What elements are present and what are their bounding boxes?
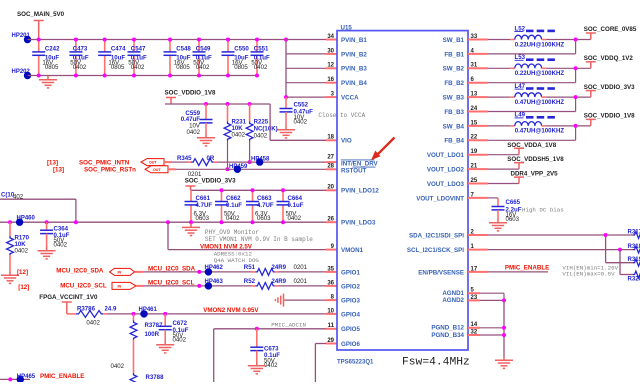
ground C665 <box>489 219 507 231</box>
wire AGND1 <box>468 292 480 294</box>
svg-text:0603: 0603 <box>506 216 520 223</box>
pin 27 INT/EN_DRV <box>327 155 378 168</box>
svg-text:C552: C552 <box>294 102 309 109</box>
capacitor C661 <box>185 190 213 224</box>
svg-text:0402: 0402 <box>110 363 124 370</box>
svg-text:SOC_CORE_0V85: SOC_CORE_0V85 <box>584 26 637 33</box>
svg-text:PMIC_ADCIN: PMIC_ADCIN <box>271 322 306 329</box>
pin 34 PVIN_B1 <box>327 34 367 44</box>
svg-text:SW_B2: SW_B2 <box>443 66 465 73</box>
svg-text:Q4A WATCH DOG: Q4A WATCH DOG <box>214 257 260 264</box>
inductor L49 <box>515 112 565 135</box>
pin 21 VOUT_LDO2 <box>427 164 478 174</box>
svg-text:DDR4_VPP_2V5: DDR4_VPP_2V5 <box>511 171 559 178</box>
svg-text:MCU_I2C0_SDA: MCU_I2C0_SDA <box>148 265 196 272</box>
svg-text:R52: R52 <box>244 278 256 285</box>
wire VMON1 from rail to pin 9 <box>166 220 170 224</box>
junction L53 output <box>574 66 578 70</box>
port OUT SOC_PMIC_INTN <box>141 159 164 166</box>
pin 19 VOUT_LDO1 <box>427 149 478 159</box>
junction left rail corner <box>74 220 78 224</box>
pin 22 FB_B4 <box>444 135 477 145</box>
svg-text:SW_B4: SW_B4 <box>443 123 465 130</box>
pin 16 PVIN_B4 <box>327 77 367 87</box>
svg-text:0402: 0402 <box>232 131 246 138</box>
capacitor C473 symbol <box>69 52 82 55</box>
svg-text:[13]: [13] <box>47 159 58 166</box>
wire MCU_I2C0_SDA to pin 35 <box>135 271 144 273</box>
svg-text:36: 36 <box>327 280 334 286</box>
svg-text:0402: 0402 <box>294 119 308 126</box>
svg-text:0201: 0201 <box>294 278 308 285</box>
power symbol SOC_VDDIO_3V3 <box>586 91 596 98</box>
resistor R52 <box>244 278 308 289</box>
pin 3 VCCA <box>331 92 359 102</box>
wire FB to L52 output <box>468 53 488 55</box>
svg-text:AGND2: AGND2 <box>442 297 464 304</box>
svg-text:IN: IN <box>118 284 122 288</box>
svg-text:0402: 0402 <box>15 248 29 255</box>
power symbol DDR4_VPP_2V5 <box>514 177 524 183</box>
capacitor C661 symbol <box>185 202 198 205</box>
wire SW to L49 <box>468 125 488 127</box>
svg-text:0402: 0402 <box>254 64 268 71</box>
port OUT SOC_PMIC_RSTn <box>145 166 168 173</box>
svg-text:PVIN_LDO3: PVIN_LDO3 <box>341 220 376 227</box>
svg-text:0402: 0402 <box>86 319 100 326</box>
ground 5V cap bank <box>39 76 57 88</box>
svg-text:0805: 0805 <box>234 64 248 71</box>
svg-text:0.22UH@100KHZ: 0.22UH@100KHZ <box>515 41 565 48</box>
svg-text:MCU_I2C0_SCL: MCU_I2C0_SCL <box>148 279 195 286</box>
pin 30 PVIN_B2 <box>327 48 367 58</box>
pin 31 SW_B2 <box>443 63 478 73</box>
svg-text:SDA_I2C1/SDI_SPI: SDA_I2C1/SDI_SPI <box>409 232 464 239</box>
junction SDA branch <box>604 233 608 237</box>
pin 24 FB_B3 <box>444 106 477 116</box>
svg-text:VMON2 NVM 0.95V: VMON2 NVM 0.95V <box>203 307 259 314</box>
svg-text:OUT: OUT <box>149 161 157 165</box>
svg-text:0402: 0402 <box>173 337 187 344</box>
svg-text:Fsw=4.4MHz: Fsw=4.4MHz <box>402 357 470 369</box>
resistor R318 <box>628 243 640 253</box>
svg-text:SOC_MAIN_5V0: SOC_MAIN_5V0 <box>17 11 65 18</box>
ground GPIO3 (sideways) <box>275 294 286 307</box>
svg-text:0.47UH@100KHZ: 0.47UH@100KHZ <box>515 128 565 135</box>
svg-text:SOC_VDDIO_3V3: SOC_VDDIO_3V3 <box>584 84 635 91</box>
pin 35 GPIO1 <box>327 266 360 276</box>
capacitor C664 symbol <box>277 202 290 205</box>
svg-text:34: 34 <box>327 34 334 40</box>
junction C662 top <box>220 188 224 192</box>
capacitor C549 <box>193 38 212 78</box>
pin 26 PVIN_LDO3 <box>327 217 376 227</box>
power symbol SOC_VDDIO_1V8 <box>166 98 176 105</box>
svg-text:VIO: VIO <box>341 138 352 145</box>
svg-text:C665: C665 <box>506 199 521 206</box>
junction PGND_B34 <box>502 333 506 337</box>
svg-text:PGND_B12: PGND_B12 <box>431 325 464 332</box>
resistor R318 symbol <box>633 246 640 253</box>
svg-text:PGND_B34: PGND_B34 <box>431 332 464 339</box>
power symbol FPGA_VCCINT_1V0 <box>62 302 72 314</box>
capacitor C242 symbol <box>32 52 45 55</box>
svg-text:0R: 0R <box>207 155 215 162</box>
junction C661 bottom <box>189 220 193 224</box>
capacitor C663 symbol <box>246 202 259 205</box>
wire R3786 to pin 10 <box>103 313 107 315</box>
svg-text:TPS65223Q1: TPS65223Q1 <box>337 360 374 366</box>
junction L49 output <box>574 124 578 128</box>
capacitor C559 <box>181 102 213 136</box>
svg-text:20: 20 <box>327 185 334 191</box>
inductor L47 <box>515 83 565 106</box>
svg-text:MCU_I2C0_SDA: MCU_I2C0_SDA <box>56 268 104 275</box>
capacitor C364 <box>40 220 70 248</box>
svg-text:0402: 0402 <box>264 362 278 369</box>
svg-text:GPIO5: GPIO5 <box>341 326 360 333</box>
junction C548 bottom <box>168 74 172 78</box>
junction C242 bottom <box>37 74 41 78</box>
junction C473 bottom <box>74 74 78 78</box>
capacitor C672 symbol <box>159 326 172 329</box>
svg-text:35: 35 <box>327 266 334 272</box>
svg-text:0402: 0402 <box>196 64 210 71</box>
svg-text:26: 26 <box>327 217 334 223</box>
junction C547 bottom <box>132 74 136 78</box>
capacitor C559 symbol <box>200 120 213 123</box>
wire AGND to PGND <box>503 300 505 356</box>
svg-text:VOUT_LDO3: VOUT_LDO3 <box>427 181 465 188</box>
wire EN/PB/VSENSE <box>468 271 488 273</box>
power symbol SOC_VDDIO_1V8 <box>586 119 596 126</box>
wire 5V to PVIN_B2 <box>286 53 326 55</box>
inductor L53 coil <box>515 64 542 68</box>
resistor R225 symbol <box>246 122 253 141</box>
capacitor C474 <box>98 38 126 78</box>
capacitor C665 symbol <box>492 207 505 210</box>
svg-text:SOC_PMIC_RSTn: SOC_PMIC_RSTn <box>84 167 136 174</box>
svg-text:0402: 0402 <box>131 64 145 71</box>
svg-text:10: 10 <box>327 308 334 314</box>
resistor R345 symbol <box>191 159 213 166</box>
wire L49 to SOC_VDDIO_1V8 <box>542 125 547 127</box>
wire SW to L53 <box>468 67 488 69</box>
svg-text:VMON1: VMON1 <box>341 247 364 254</box>
wire INTN to pin 27 <box>214 161 218 163</box>
svg-text:SOC_VDDA_1V8: SOC_VDDA_1V8 <box>507 142 556 149</box>
svg-text:HP465: HP465 <box>17 374 36 380</box>
svg-text:PVIN_LDO12: PVIN_LDO12 <box>341 188 379 195</box>
inductor L53 <box>515 54 565 77</box>
svg-text:FB_B4: FB_B4 <box>444 138 464 145</box>
resistor R3786 <box>76 306 117 327</box>
svg-text:PVIN_B1: PVIN_B1 <box>341 37 367 44</box>
resistor R3788 <box>130 373 164 383</box>
junction C550 bottom <box>226 74 230 78</box>
wire FB to L49 output <box>468 139 488 141</box>
resistor R345 <box>177 155 215 178</box>
resistor R225 <box>246 102 277 164</box>
svg-text:[12]: [12] <box>17 269 28 276</box>
wire MCU_I2C0_SCL to pin 36 <box>136 285 144 287</box>
pin 13 SW_B3 <box>443 92 478 102</box>
svg-text:0.22UH@100KHZ: 0.22UH@100KHZ <box>515 70 565 77</box>
svg-text:R345: R345 <box>177 155 192 162</box>
svg-text:OUT: OUT <box>153 168 161 172</box>
svg-text:27: 27 <box>327 155 334 161</box>
pin 4 FB_B1 <box>444 48 474 58</box>
capacitor C551 <box>251 38 270 78</box>
svg-text:GPIO6: GPIO6 <box>341 341 360 348</box>
pin 27 INT/EN_DRV overline <box>341 159 375 161</box>
svg-text:0402: 0402 <box>254 132 268 139</box>
svg-text:R319: R319 <box>628 256 640 263</box>
svg-text:0402: 0402 <box>186 129 200 136</box>
svg-text:U15: U15 <box>341 24 353 31</box>
capacitor C663 <box>246 188 274 224</box>
capacitor C664 <box>277 188 304 224</box>
svg-text:GPIO3: GPIO3 <box>341 298 360 305</box>
inductor L47 coil <box>515 93 542 97</box>
pin 20 PVIN_LDO12 <box>327 185 379 195</box>
junction C663 top <box>251 188 255 192</box>
svg-text:PMIC_ENABLE: PMIC_ENABLE <box>505 265 549 272</box>
capacitor C364 symbol <box>40 230 53 233</box>
capacitor C550 <box>222 38 250 78</box>
ground C364 <box>38 247 56 259</box>
junction C550 top <box>226 38 230 42</box>
svg-text:R318: R318 <box>628 243 640 250</box>
capacitor C673 symbol <box>250 347 263 350</box>
junction SCL branch <box>618 248 622 252</box>
svg-text:0402: 0402 <box>226 215 240 222</box>
svg-text:0603: 0603 <box>196 215 210 222</box>
junction R231 / RSTn <box>226 167 230 171</box>
svg-text:SOC_VDDIO_3V3: SOC_VDDIO_3V3 <box>185 178 236 185</box>
wire GPIO3 to ground <box>286 299 326 301</box>
capacitor C665 <box>492 199 522 223</box>
port IN MCU_I2C0_SDA <box>110 268 135 275</box>
svg-text:PVIN_B3: PVIN_B3 <box>341 66 367 73</box>
svg-text:NC(10K): NC(10K) <box>254 125 278 132</box>
annotation red arrow to INT/EN_DRV <box>371 138 395 161</box>
svg-text:FPGA_VCCINT_1V0: FPGA_VCCINT_1V0 <box>39 294 98 301</box>
wire 5V to PVIN_B3 <box>286 67 326 69</box>
wire left upper stub <box>0 198 76 200</box>
junction C551 top <box>255 38 259 42</box>
svg-text:FB_B2: FB_B2 <box>444 80 464 87</box>
capacitor C662 symbol <box>215 202 228 205</box>
resistor R52 symbol <box>256 283 275 290</box>
svg-text:SOC_VDDQ_1V2: SOC_VDDQ_1V2 <box>584 55 634 62</box>
junction C662 bottom <box>220 220 224 224</box>
svg-text:SW_B3: SW_B3 <box>443 95 465 102</box>
ground R170 <box>1 271 19 283</box>
wire PGND_B12 <box>468 327 480 329</box>
svg-text:High DC bias: High DC bias <box>522 206 564 213</box>
svg-text:R3786: R3786 <box>77 306 96 313</box>
capacitor C552 symbol <box>280 109 293 112</box>
power symbol SOC_CORE_0V85 <box>586 33 596 40</box>
junction PMIC_ENABLE <box>8 377 12 381</box>
svg-text:16: 16 <box>327 77 334 83</box>
svg-text:0805: 0805 <box>176 64 190 71</box>
junction L47 output <box>574 95 578 99</box>
ground cap bank 3V3 <box>182 223 200 235</box>
resistor R319 <box>628 256 640 266</box>
svg-text:INT/EN_DRV: INT/EN_DRV <box>341 160 379 167</box>
wire INTN to R345 <box>164 161 172 163</box>
svg-text:SW_B1: SW_B1 <box>443 37 465 44</box>
svg-text:VMON1 NVM 2.5V: VMON1 NVM 2.5V <box>200 243 253 250</box>
svg-text:VOUT_LDO2: VOUT_LDO2 <box>427 167 465 174</box>
resistor R231 <box>224 102 247 171</box>
capacitor C672 <box>159 314 189 344</box>
svg-text:FB_B3: FB_B3 <box>444 109 464 116</box>
wire 5V to VCCA <box>286 96 326 98</box>
capacitor C662 <box>215 188 242 224</box>
svg-text:SOC_PMIC_INTN: SOC_PMIC_INTN <box>79 159 130 166</box>
junction C473 top <box>74 38 78 42</box>
pin 10 GPIO4 <box>327 308 360 318</box>
resistor R3787 symbol <box>130 321 137 340</box>
pin 15 SW_B4 <box>443 120 478 130</box>
junction C673 top <box>255 327 259 331</box>
resistor R51 <box>244 264 308 275</box>
svg-text:0.47UH@100KHZ: 0.47UH@100KHZ <box>515 99 565 106</box>
wire L52 to SOC_CORE_0V85 <box>542 39 547 41</box>
wire 3V3 bus to PVIN_LDO12 <box>191 189 327 191</box>
svg-text:24R9: 24R9 <box>272 278 287 285</box>
svg-text:MCU_I2C0_SCL: MCU_I2C0_SCL <box>60 282 107 289</box>
pin 11 GPIO5 <box>328 323 361 333</box>
svg-text:0805: 0805 <box>111 64 125 71</box>
wire VOUT_LDO to DDR4_VPP_2V5 <box>468 183 488 185</box>
wire 5V feed vertical to PVIN pins <box>285 40 287 98</box>
junction C474 top <box>103 38 107 42</box>
inductor L49 coil <box>515 122 542 126</box>
wire AGND2 <box>468 299 480 301</box>
wire FB to L53 output <box>468 82 488 84</box>
power symbol SOC_VDDA_1V8 <box>514 148 524 154</box>
wire 5V to PVIN_B4 <box>286 82 326 84</box>
svg-text:0805: 0805 <box>45 64 59 71</box>
pin 33 SW_B1 <box>443 34 478 44</box>
svg-text:0402: 0402 <box>288 215 302 222</box>
svg-text:30: 30 <box>327 48 334 54</box>
junction C474 bottom <box>103 74 107 78</box>
pin 17 EN/PB/VSENSE <box>418 266 478 276</box>
wire 1V8 bus to VIO <box>269 104 271 140</box>
svg-text:R320: R320 <box>628 275 640 282</box>
svg-text:24.9: 24.9 <box>105 306 117 313</box>
wire SW to L47 <box>468 96 488 98</box>
svg-text:28: 28 <box>327 163 334 169</box>
pin 36 GPIO2 <box>327 280 360 290</box>
svg-text:SOC_VDDIO_1V8: SOC_VDDIO_1V8 <box>165 90 216 97</box>
capacitor C548 <box>164 38 192 78</box>
svg-text:4.7UF: 4.7UF <box>257 202 274 209</box>
capacitor C548 symbol <box>164 52 177 55</box>
svg-text:4.7UF: 4.7UF <box>196 202 213 209</box>
svg-text:RSTOUT: RSTOUT <box>341 168 367 175</box>
junction L52 output <box>574 38 578 42</box>
pin 1 SCL_I2C1/SCK_SPI <box>407 244 475 254</box>
pin 23 AGND2 <box>442 295 478 304</box>
junction C672 top <box>163 312 167 316</box>
pin 7 VOUT_LDOVINT <box>416 192 474 202</box>
svg-text:VCCA: VCCA <box>341 95 359 102</box>
svg-text:Close to VCCA: Close to VCCA <box>318 112 365 119</box>
wire VOUT_LDOVINT <box>468 197 488 199</box>
svg-text:GPIO4: GPIO4 <box>341 311 360 318</box>
svg-text:C242: C242 <box>45 46 60 53</box>
junction SCL <box>197 284 201 288</box>
svg-text:R3788: R3788 <box>146 374 165 381</box>
svg-text:SET VMON1 NVM 0.9V In B sample: SET VMON1 NVM 0.9V In B sample <box>205 236 313 243</box>
wire FB to L47 output <box>468 111 488 113</box>
svg-text:18: 18 <box>327 135 334 141</box>
junction C552 tap <box>284 95 288 99</box>
capacitor C551 symbol <box>251 52 264 55</box>
wire PMIC_ADCIN <box>213 329 215 382</box>
wire SDA_I2C1 to R317 <box>468 234 488 236</box>
power symbol SOC_VDDIO_3V3 <box>186 186 196 190</box>
svg-text:12: 12 <box>327 63 334 69</box>
resistor R170 <box>7 220 30 271</box>
svg-text:0.1uF: 0.1uF <box>226 202 242 209</box>
junction C663 bottom <box>251 220 255 224</box>
svg-text:R317: R317 <box>628 229 640 236</box>
svg-text:FB_B1: FB_B1 <box>444 51 464 58</box>
capacitor C242 <box>32 38 60 78</box>
junction R3787 top <box>132 312 136 316</box>
svg-text:C474: C474 <box>111 46 126 53</box>
wire GPIO6 <box>314 344 316 383</box>
svg-text:EN/PB/VSENSE: EN/PB/VSENSE <box>418 269 464 276</box>
junction C548 top <box>168 38 172 42</box>
svg-text:C548: C548 <box>176 46 191 53</box>
wire VOUT_LDO to SOC_VDDA_1V8 <box>468 154 488 156</box>
pin 28 RSTOUT <box>327 163 366 174</box>
svg-text:C547: C547 <box>131 46 146 53</box>
pin 18 VIO <box>327 135 352 145</box>
pin 14 PGND_B12 <box>431 322 478 331</box>
ground C672 <box>156 341 174 353</box>
svg-text:[12]: [12] <box>18 284 29 291</box>
svg-text:SOC_VDDSH5_1V8: SOC_VDDSH5_1V8 <box>507 156 564 163</box>
svg-text:C549: C549 <box>196 46 211 53</box>
pin 2 SDA_I2C1/SDI_SPI <box>409 229 475 239</box>
svg-text:SOC_VDDIO_1V8: SOC_VDDIO_1V8 <box>584 113 635 120</box>
wire SCL_I2C1 to R318 <box>468 249 488 251</box>
svg-text:0201: 0201 <box>294 264 308 271</box>
wire 5V to PVIN_B1 <box>286 39 326 41</box>
svg-text:100R: 100R <box>145 331 160 338</box>
svg-text:VOUT_LDO1: VOUT_LDO1 <box>427 152 465 159</box>
op-amp U15 TPS65223Q1 IC box <box>337 31 468 350</box>
resistor R231 symbol <box>224 122 231 141</box>
svg-text:R225: R225 <box>254 118 269 125</box>
junction C242 top <box>37 38 41 42</box>
capacitor C474 symbol <box>98 52 111 55</box>
wire VOUT_LDO to SOC_VDDSH5_1V8 <box>468 168 488 170</box>
svg-text:R51: R51 <box>244 264 256 271</box>
resistor R319 symbol <box>633 259 640 266</box>
resistor R3787 <box>110 314 163 373</box>
resistor R317 symbol <box>633 232 640 239</box>
